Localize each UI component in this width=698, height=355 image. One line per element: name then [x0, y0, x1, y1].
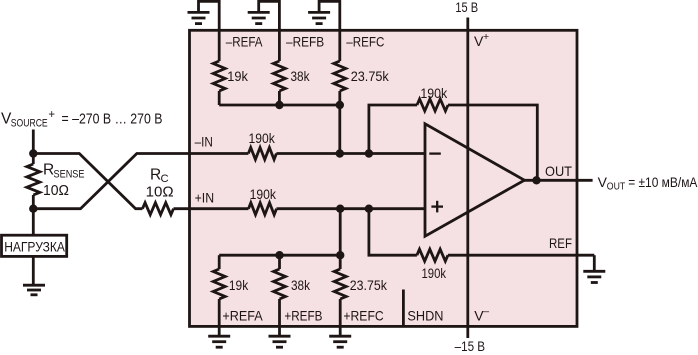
svg-text:190k: 190k: [250, 186, 277, 202]
label RSENSE: [43, 162, 85, 199]
svg-text:+REFB: +REFB: [284, 308, 322, 324]
svg-text:SHDN: SHDN: [407, 307, 443, 323]
svg-text:НАГРУЗКА: НАГРУЗКА: [4, 240, 65, 255]
svg-text:–REFA: –REFA: [226, 34, 263, 50]
wire feedback top: tap up and across: [369, 105, 417, 154]
svg-text:+: +: [483, 31, 489, 43]
wire -REF bus to -IN line: [338, 105, 341, 154]
svg-text:+REFC: +REFC: [343, 308, 383, 324]
node +IN/+REFC junction: [336, 205, 344, 213]
svg-text:23.75k: 23.75k: [350, 277, 388, 293]
resistor 190k (+IN input): [249, 203, 277, 215]
label V+ pin: [474, 31, 489, 49]
wire -REFA pin to top ground: [199, 1, 220, 30]
resistor –REFB 38k: [273, 30, 285, 105]
svg-text:+IN: +IN: [195, 190, 215, 206]
wire node B to load box: [32, 209, 35, 234]
node B (bottom of RSENSE): [29, 205, 37, 213]
wire REF line to box edge and outside: [448, 254, 594, 257]
resistor 190k (bottom feedback): [417, 249, 448, 261]
ground (-REFA): [188, 12, 210, 23]
wire -REF bus: [219, 104, 340, 107]
resistor RSENSE: [27, 154, 40, 209]
wire feedback bottom: tap down and across: [369, 209, 417, 256]
resistor +REFB 38k: [274, 255, 286, 336]
svg-text:+REFA: +REFA: [222, 308, 263, 324]
svg-text:–IN: –IN: [195, 134, 213, 150]
wire -REFC pin to top ground: [319, 1, 340, 30]
wire from VSOURCE label to node A: [32, 130, 35, 154]
svg-text:19k: 19k: [227, 68, 249, 84]
ground (load): [23, 285, 45, 295]
ground (-REFB): [248, 12, 270, 23]
svg-text:OUT: OUT: [545, 163, 572, 179]
wire -IN line right segment to op-amp: [276, 152, 425, 155]
svg-text:= ±10 мВ/мА: = ±10 мВ/мА: [628, 174, 698, 190]
node +REFB top: [275, 251, 283, 259]
svg-text:SENSE: SENSE: [54, 168, 85, 180]
resistor +REFC 23.75k: [334, 255, 346, 336]
svg-text:REF: REF: [549, 235, 572, 251]
svg-text:–REFC: –REFC: [346, 34, 384, 50]
svg-text:38k: 38k: [291, 68, 311, 84]
svg-text:19k: 19k: [229, 277, 249, 293]
svg-text:190k: 190k: [249, 130, 276, 146]
node -REFB bottom: [275, 101, 283, 109]
ground (REF): [583, 271, 605, 282]
svg-text:190k: 190k: [420, 85, 448, 101]
wire REF down to ground: [593, 255, 596, 271]
wire V+/V- supply rail: [466, 18, 469, 339]
label VOUT: [598, 174, 698, 193]
resistor 190k (-IN input): [248, 148, 276, 160]
ground (+REFA): [208, 336, 230, 347]
svg-text:OUT: OUT: [607, 181, 626, 193]
svg-text:38k: 38k: [291, 277, 311, 293]
wire OUT line: [524, 179, 592, 182]
SHDN pin stub: [402, 290, 405, 327]
resistor 190k (top feedback): [417, 99, 448, 111]
op-amp plus input marker: [431, 201, 443, 213]
wire node A to crossover upper-left: [33, 154, 142, 209]
node +IN feedback tap: [365, 205, 373, 213]
node A (top of RSENSE): [29, 149, 37, 157]
label VSOURCE: [1, 109, 163, 129]
svg-text:190k: 190k: [422, 265, 447, 281]
svg-text:10Ω: 10Ω: [43, 182, 69, 199]
svg-text:–: –: [483, 305, 489, 317]
label V- pin: [474, 305, 489, 323]
resistor RC: [143, 203, 192, 215]
load box НАГРУЗКА: [2, 235, 67, 256]
node +REFC top: [336, 251, 344, 259]
svg-text:23.75k: 23.75k: [351, 68, 390, 84]
IC body (difference amplifier block): [190, 30, 578, 326]
node -IN feedback tap: [365, 149, 373, 157]
wire node B to crossover lower-left, to -IN: [33, 154, 191, 209]
op-amp minus input marker: [429, 152, 441, 154]
svg-text:SOURCE: SOURCE: [11, 117, 48, 129]
resistor –REFA 19k: [213, 30, 225, 105]
wire +REF bus: [219, 254, 340, 257]
svg-text:15 В: 15 В: [455, 0, 478, 15]
wire load box to ground: [32, 256, 35, 285]
resistor –REFC 23.75k: [334, 30, 346, 105]
wire -IN line left segment: [190, 152, 249, 155]
svg-text:–15 В: –15 В: [455, 338, 486, 354]
op-amp U1: [425, 124, 524, 236]
wire -REFB pin to top ground: [259, 1, 280, 30]
node -IN/-REFC junction: [336, 149, 344, 157]
ground (-REFC): [308, 12, 330, 23]
svg-text:–REFB: –REFB: [286, 34, 324, 50]
ground (+REFC): [329, 336, 351, 347]
resistor +REFA 19k: [213, 255, 225, 336]
svg-text:+: +: [48, 109, 55, 121]
ground (+REFB): [269, 336, 291, 347]
wire +IN line left segment: [190, 207, 249, 210]
label RC: [146, 166, 174, 200]
svg-text:10Ω: 10Ω: [146, 184, 174, 201]
node -REFC bottom: [336, 101, 344, 109]
svg-text:= –270 В … 270 В: = –270 В … 270 В: [62, 111, 163, 128]
wire +IN line to +REF bus: [339, 209, 342, 256]
wire feedback top right, down to OUT node: [448, 105, 537, 180]
wire +IN line right segment to op-amp: [277, 207, 426, 210]
node OUT: [532, 176, 540, 184]
